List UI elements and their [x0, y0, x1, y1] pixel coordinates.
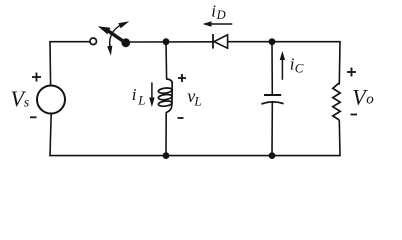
- wire left vertical (top): [49, 42, 52, 86]
- minus (output): [351, 114, 358, 116]
- node junction dot (capacitor top): [269, 38, 276, 45]
- capacitor top plate: [264, 94, 281, 96]
- wire top rail middle (switch dot to diode): [129, 41, 212, 43]
- current arrow iC: [280, 51, 285, 80]
- svg-text:s: s: [24, 96, 30, 111]
- svg-text:D: D: [216, 8, 226, 22]
- minus (inductor): [178, 117, 184, 119]
- wire right vertical (top): [338, 42, 341, 84]
- diode triangle: [214, 35, 228, 48]
- switch open terminal (circle): [90, 38, 97, 45]
- plus (output): [347, 68, 356, 77]
- node junction dot (capacitor bottom): [269, 152, 276, 159]
- wire left vertical (bottom): [50, 114, 51, 156]
- switch motion arc (double arrow): [110, 23, 126, 48]
- node junction dot (inductor bottom): [163, 152, 170, 159]
- switch lever (arrow): [98, 26, 127, 44]
- wire bottom rail: [50, 155, 340, 157]
- inductor L coils: [158, 79, 172, 113]
- wire top-left segment: [50, 41, 89, 43]
- wire capacitor branch lower: [271, 103, 273, 156]
- wire inductor branch upper: [165, 42, 168, 79]
- svg-text:i: i: [132, 85, 137, 104]
- svg-text:o: o: [366, 92, 374, 108]
- switch pivot dot: [121, 38, 130, 47]
- wire right vertical (bottom): [338, 121, 341, 156]
- current arrow iL: [149, 82, 154, 107]
- wire top rail right (diode to right corner): [228, 41, 340, 43]
- svg-text:C: C: [295, 60, 304, 75]
- current arrow iD: [203, 21, 233, 27]
- svg-text:L: L: [137, 93, 145, 108]
- minus (source): [30, 116, 37, 118]
- resistor R zigzag: [333, 83, 340, 120]
- wire capacitor branch upper: [271, 42, 273, 95]
- node junction dot (inductor top): [163, 38, 170, 45]
- svg-text:L: L: [193, 94, 201, 109]
- source Vs (circle): [37, 86, 65, 114]
- plus (source): [32, 73, 41, 82]
- diode bar (cathode): [212, 34, 214, 49]
- plus (inductor): [178, 74, 186, 82]
- svg-text:i: i: [211, 2, 216, 21]
- wire inductor branch lower: [165, 113, 167, 156]
- capacitor bottom plate (curved): [262, 102, 284, 104]
